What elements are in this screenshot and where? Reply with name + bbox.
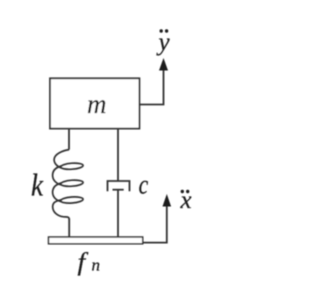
arrowhead x: [163, 194, 172, 207]
base plate f_n: [49, 237, 143, 244]
wire plate to x-arrow: [143, 205, 167, 243]
wire damper bottom rod: [117, 190, 119, 237]
svg-text:y: y: [156, 29, 171, 56]
spring k coil: [53, 150, 84, 220]
svg-text:k: k: [31, 169, 44, 203]
wire damper top rod: [117, 129, 119, 181]
y-ddot dots: [160, 29, 163, 32]
svg-text:f: f: [78, 248, 90, 276]
wire spring top rod: [68, 129, 70, 150]
svg-text:n: n: [92, 256, 101, 275]
mass block m: [50, 78, 139, 128]
damper piston plate: [113, 189, 124, 191]
arrowhead y: [159, 58, 168, 71]
wire spring bottom rod: [68, 219, 70, 238]
damper C cylinder cup: [108, 181, 130, 191]
svg-text:m: m: [87, 89, 107, 119]
wire box to y-arrow: [139, 69, 163, 105]
x-ddot dots: [181, 190, 184, 193]
svg-text:c: c: [139, 170, 149, 200]
